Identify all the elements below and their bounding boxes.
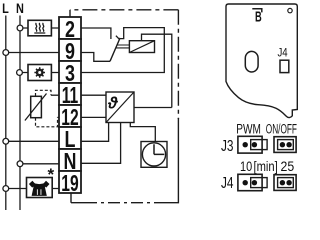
terminal 19 <box>59 171 81 193</box>
terminal N <box>59 149 81 171</box>
jumper J4 position 10min (set) <box>238 174 267 190</box>
housing panel outline <box>226 4 297 118</box>
terminal 11 <box>59 83 81 105</box>
svg-text:PWM: PWM <box>236 121 261 137</box>
heater load <box>28 20 51 36</box>
manufacturer logo <box>252 9 261 13</box>
wire terminal 12 to controller <box>81 116 106 118</box>
rail N <box>19 16 21 211</box>
junction L row19 <box>3 186 9 192</box>
mechanical link <box>116 45 129 48</box>
terminal L <box>59 127 81 149</box>
terminal 9 <box>59 39 81 61</box>
svg-text:B: B <box>255 8 262 25</box>
terminal labels <box>61 17 78 197</box>
wire controller to N <box>81 123 121 164</box>
mounting hole <box>288 8 292 12</box>
sensor body <box>25 94 47 121</box>
svg-text:L: L <box>2 1 9 17</box>
external sensor R (dashed option) <box>36 90 58 127</box>
junction L rowL <box>3 138 9 144</box>
relay coil K1 <box>129 41 154 53</box>
wire row L <box>6 140 59 142</box>
wire row 3 <box>20 72 59 74</box>
wire sensor to 12 <box>58 116 60 118</box>
wire controller to L <box>81 123 109 142</box>
wire row N <box>20 163 59 165</box>
timer clock <box>141 142 167 168</box>
rail L <box>5 16 7 211</box>
wire terminal 9 to contact common <box>81 53 110 62</box>
svg-text:J4: J4 <box>221 173 234 191</box>
terminal 2 <box>59 17 81 39</box>
junction N rowN <box>17 161 23 167</box>
svg-text:J4: J4 <box>278 47 288 60</box>
controller U1 (temperature) <box>106 92 134 123</box>
wire coil to controller <box>142 34 172 107</box>
wire terminal 2 to contact <box>81 28 111 39</box>
junction N row3 <box>17 70 23 76</box>
svg-text:[min]: [min] <box>254 159 278 174</box>
jumper window on panel <box>280 60 289 72</box>
wire controller to timer <box>130 123 155 142</box>
wire row 19 <box>6 188 59 190</box>
wire terminal 3 to NO contact <box>81 28 164 73</box>
terminal 12 <box>59 105 81 127</box>
wire terminal 11 to controller <box>81 94 106 96</box>
svg-text:25: 25 <box>281 158 295 174</box>
wire controller output <box>134 107 172 109</box>
svg-text:*: * <box>48 165 55 184</box>
svg-text:ON/OFF: ON/OFF <box>266 122 297 137</box>
relay contact blade <box>110 38 120 61</box>
jumper J3 position ON/OFF <box>274 137 296 153</box>
svg-text:N: N <box>16 1 24 17</box>
junction N row2 <box>17 25 23 31</box>
svg-text:ϑ: ϑ <box>107 95 119 113</box>
jumper J4 position 25min <box>274 175 296 191</box>
wire row 9 <box>6 52 59 54</box>
svg-text:10: 10 <box>240 159 252 175</box>
terminal strip <box>59 17 81 193</box>
wire sensor to 11 <box>51 94 59 96</box>
contact arrow tick <box>116 36 120 40</box>
cooling load <box>28 65 51 81</box>
jumper J3 position PWM (set) <box>238 136 267 153</box>
enclosure boundary dash-dot <box>70 10 178 203</box>
junction L row9 <box>3 50 9 56</box>
oval opening <box>245 51 258 72</box>
svg-text:19: 19 <box>61 171 78 197</box>
telephone module <box>27 178 53 198</box>
wire row 2 <box>20 27 59 29</box>
svg-text:J3: J3 <box>221 136 234 154</box>
terminal 3 <box>59 61 81 83</box>
